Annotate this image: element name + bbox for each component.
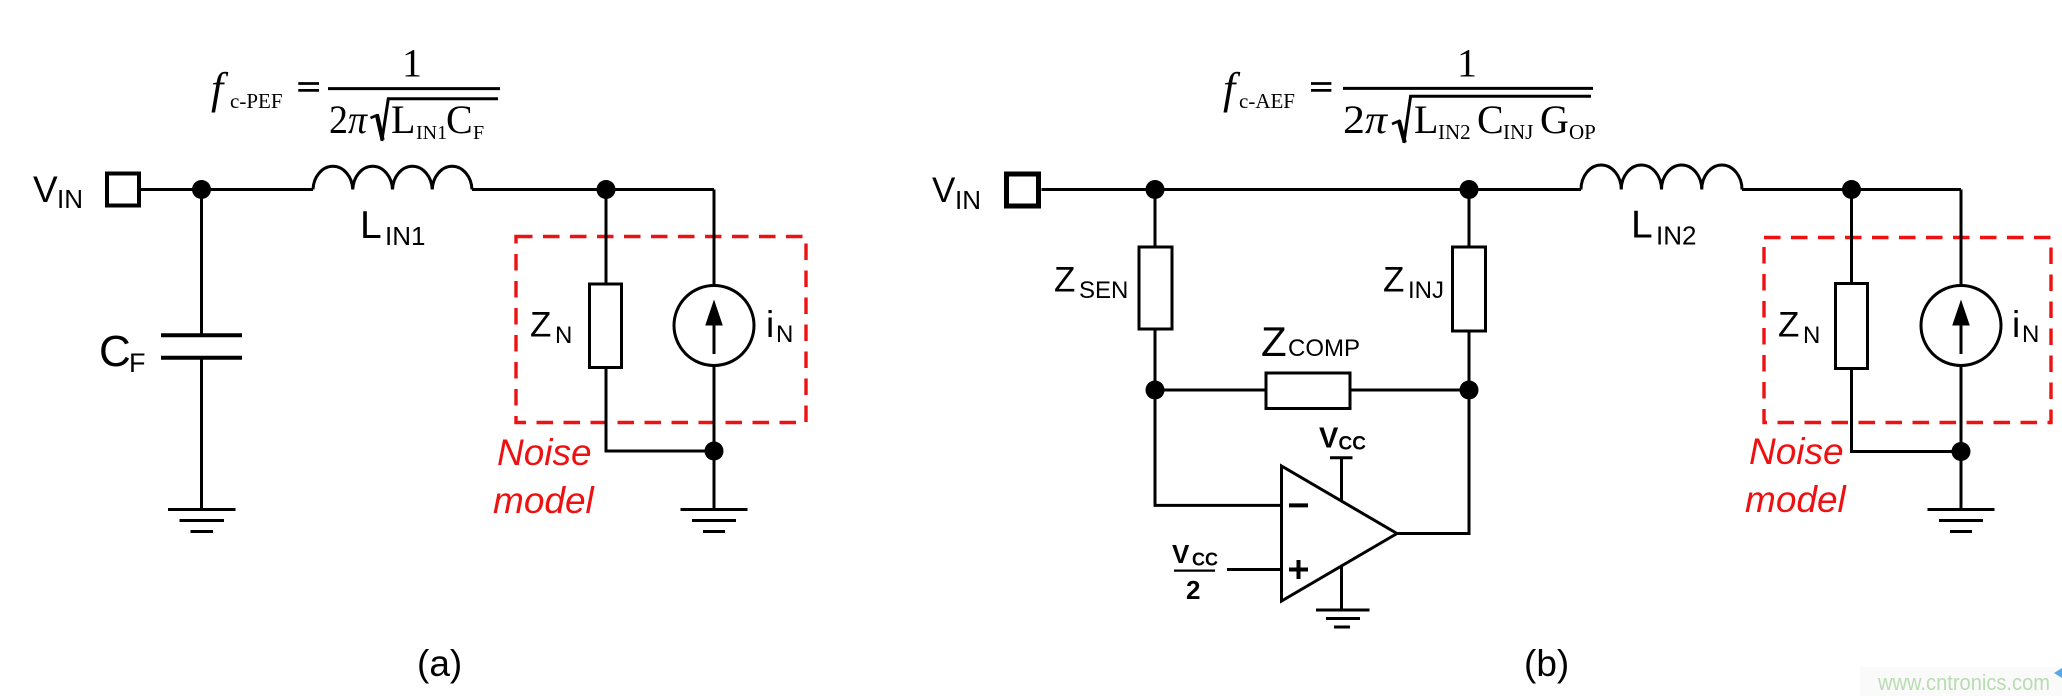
impedance Z_N rect (b)	[1836, 284, 1868, 369]
inductor L_IN2	[1581, 165, 1742, 190]
svg-text:c-AEF: c-AEF	[1239, 89, 1295, 113]
svg-text:CC: CC	[1192, 550, 1218, 570]
svg-text:V: V	[1172, 539, 1190, 569]
svg-text:model: model	[493, 480, 596, 521]
svg-text:C: C	[99, 327, 131, 376]
Z_SEN bottom wire	[1154, 329, 1157, 390]
svg-text:IN1: IN1	[416, 122, 447, 144]
Z_N bottom wire (b)	[1852, 369, 1962, 452]
impedance Z_N branch top wire (b)	[1850, 190, 1853, 284]
svg-text:(a): (a)	[417, 643, 462, 684]
capacitor C_F top plate	[161, 333, 242, 337]
svg-text:IN: IN	[955, 185, 981, 215]
terminal square VIN (b)	[1007, 174, 1039, 206]
svg-text:Noise: Noise	[1749, 431, 1844, 472]
svg-text:L: L	[360, 204, 382, 247]
watermark blue mark	[2054, 668, 2062, 678]
svg-text:IN: IN	[57, 184, 83, 214]
impedance Z_SEN rect	[1139, 247, 1172, 329]
wire square to inductor (a)	[141, 188, 313, 191]
current source arrow (b)	[1960, 322, 1963, 354]
svg-text:F: F	[129, 348, 146, 378]
node B	[597, 180, 616, 199]
svg-text:CC: CC	[1339, 434, 1367, 455]
current source bottom wire (a)	[713, 366, 716, 510]
svg-text:SEN: SEN	[1079, 277, 1128, 304]
op-amp ground stem	[1340, 566, 1343, 610]
svg-text:c-PEF: c-PEF	[230, 89, 283, 113]
formula f_c-AEF	[1223, 41, 1596, 145]
svg-text:N: N	[776, 321, 793, 348]
node 2 (b)	[1460, 180, 1479, 199]
left loop wire to op-amp minus input	[1155, 390, 1282, 505]
svg-text:www.cntronics.com: www.cntronics.com	[1877, 670, 2050, 695]
op-amp U1 triangle	[1282, 466, 1398, 601]
impedance Z_INJ rect	[1453, 247, 1486, 331]
node A	[192, 180, 211, 199]
fraction bar (b)	[1343, 87, 1593, 90]
svg-text:Z: Z	[1261, 318, 1287, 365]
equals sign (b)	[1311, 82, 1331, 85]
radical sign (a)	[371, 115, 378, 118]
node 1 (b)	[1146, 180, 1165, 199]
svg-text:OP: OP	[1569, 120, 1596, 144]
svg-text:G: G	[1540, 97, 1569, 142]
inductor L_IN1	[313, 166, 472, 189]
svg-text:C: C	[446, 97, 473, 142]
current source branch wire top (b)	[1960, 190, 1963, 286]
svg-text:Z: Z	[1383, 261, 1404, 300]
svg-text:IN1: IN1	[385, 221, 425, 251]
current source arrow (a)	[713, 322, 716, 354]
node 3 (b)	[1146, 381, 1165, 400]
svg-text:C: C	[1477, 97, 1504, 142]
formula f_c-PEF	[211, 41, 484, 145]
svg-text:model: model	[1745, 479, 1848, 520]
radical sign (b)	[1392, 121, 1405, 141]
noise model dashed box (b)	[1764, 238, 2051, 423]
wire capacitor to ground (a)	[200, 358, 203, 510]
svg-text:Noise: Noise	[497, 432, 592, 473]
svg-text:1: 1	[1457, 41, 1477, 86]
main wire (b)	[1042, 188, 1582, 191]
ground (op-amp)	[1316, 609, 1370, 612]
svg-text:i: i	[766, 304, 774, 345]
impedance Z_INJ branch top wire	[1468, 190, 1471, 248]
equals sign (a)	[298, 82, 319, 85]
Z_N bottom wire (a)	[606, 368, 714, 452]
fraction bar (a)	[328, 87, 500, 90]
svg-text:L: L	[1631, 204, 1653, 247]
plus input wire	[1227, 568, 1282, 571]
minus sign	[1289, 503, 1308, 507]
node 4 (b)	[1460, 381, 1479, 400]
svg-text:L: L	[391, 97, 415, 142]
svg-text:INJ: INJ	[1408, 277, 1444, 304]
Z_COMP row wire	[1155, 389, 1469, 392]
current source i_N circle (a)	[674, 286, 754, 366]
svg-text:IN2: IN2	[1656, 221, 1696, 251]
svg-text:N: N	[2022, 321, 2039, 348]
wire inductor to node B	[472, 188, 714, 191]
node C (a)	[705, 442, 724, 461]
svg-text:(b): (b)	[1524, 643, 1569, 684]
svg-text:Z: Z	[530, 306, 551, 345]
V_CC supply tap	[1330, 456, 1353, 459]
svg-text:Z: Z	[1054, 261, 1075, 300]
svg-text:V: V	[932, 171, 956, 210]
svg-text:2π: 2π	[1343, 97, 1388, 142]
svg-text:N: N	[555, 322, 572, 349]
noise model dashed box (a)	[516, 237, 806, 423]
impedance Z_N branch wire top (a)	[605, 190, 608, 285]
svg-text:Z: Z	[1778, 306, 1799, 345]
impedance Z_N rect (a)	[590, 284, 622, 368]
svg-text:V: V	[33, 169, 58, 210]
svg-text:i: i	[2012, 304, 2020, 345]
current source bottom wire (b)	[1960, 366, 1963, 510]
watermark band	[1860, 667, 2062, 696]
plus sign	[1289, 568, 1308, 572]
svg-text:2: 2	[1186, 575, 1200, 605]
capacitor C_F bottom plate	[161, 356, 242, 360]
svg-text:2π: 2π	[329, 97, 368, 142]
wire inductor to i_N branch (b)	[1742, 188, 1961, 191]
svg-text:1: 1	[402, 41, 422, 86]
node 5 (b)	[1842, 180, 1861, 199]
impedance Z_COMP rect	[1266, 373, 1350, 409]
ground (a right)	[681, 508, 748, 511]
ground (b right)	[1928, 508, 1995, 511]
svg-text:L: L	[1414, 97, 1438, 142]
svg-text:N: N	[1803, 322, 1820, 349]
current source i_N circle (b)	[1921, 286, 2001, 366]
terminal square VIN (a)	[107, 174, 139, 206]
node 6 (b)	[1952, 442, 1971, 461]
op-amp output wire	[1397, 390, 1469, 534]
ground (a left)	[168, 508, 236, 511]
svg-text:INJ: INJ	[1503, 120, 1533, 144]
impedance Z_SEN branch top wire	[1154, 190, 1157, 248]
svg-text:F: F	[473, 122, 484, 144]
Z_INJ bottom wire	[1468, 331, 1471, 390]
svg-text:IN2: IN2	[1438, 120, 1471, 144]
svg-text:COMP: COMP	[1288, 335, 1360, 362]
current source branch wire top (a)	[713, 190, 716, 286]
svg-text:V: V	[1319, 423, 1339, 455]
capacitor branch wire (a)	[200, 190, 203, 336]
